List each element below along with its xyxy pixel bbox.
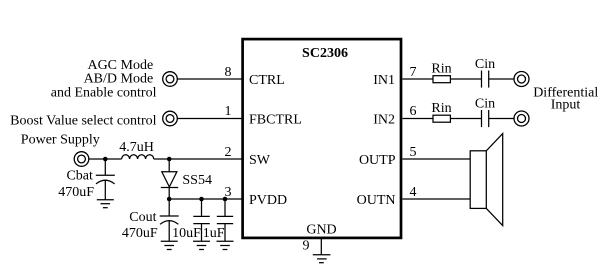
svg-text:Rin: Rin (431, 62, 451, 77)
svg-text:4.7uH: 4.7uH (119, 140, 154, 155)
svg-text:2: 2 (225, 145, 232, 160)
svg-text:470uF: 470uF (58, 185, 94, 200)
svg-text:8: 8 (225, 65, 232, 80)
svg-text:and Enable control: and Enable control (51, 85, 157, 100)
svg-text:Rin: Rin (431, 101, 451, 116)
svg-text:470uF: 470uF (122, 226, 158, 241)
svg-text:OUTN: OUTN (357, 193, 396, 208)
svg-text:7: 7 (410, 65, 417, 80)
svg-text:CTRL: CTRL (249, 73, 285, 88)
svg-text:Boost Value select control: Boost Value select control (10, 113, 156, 128)
svg-text:4: 4 (410, 185, 417, 200)
svg-text:9: 9 (303, 239, 310, 254)
svg-text:IN1: IN1 (373, 73, 395, 88)
svg-text:1: 1 (225, 104, 232, 119)
svg-text:Cout: Cout (129, 210, 156, 225)
svg-text:Power Supply: Power Supply (21, 133, 100, 148)
svg-text:5: 5 (410, 145, 417, 160)
svg-text:SW: SW (249, 153, 271, 168)
svg-text:Cin: Cin (475, 57, 495, 72)
svg-text:6: 6 (410, 104, 417, 119)
svg-text:PVDD: PVDD (249, 193, 287, 208)
svg-text:Input: Input (551, 97, 581, 112)
svg-text:Cbat: Cbat (66, 168, 93, 183)
svg-text:SS54: SS54 (182, 173, 212, 188)
svg-text:SC2306: SC2306 (302, 46, 348, 61)
svg-text:GND: GND (306, 223, 336, 238)
svg-text:10uF: 10uF (172, 226, 201, 241)
svg-text:OUTP: OUTP (359, 153, 396, 168)
svg-text:FBCTRL: FBCTRL (249, 113, 302, 128)
svg-text:1uF: 1uF (203, 226, 225, 241)
svg-text:Cin: Cin (475, 96, 495, 111)
svg-text:IN2: IN2 (373, 113, 395, 128)
